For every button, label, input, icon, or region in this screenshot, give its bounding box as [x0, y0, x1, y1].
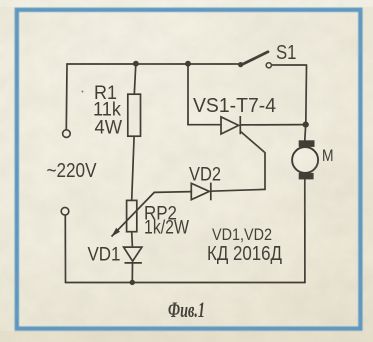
wire thyristor cathode to motor node [240, 124, 305, 126]
wire motor node to motor [304, 125, 307, 141]
node junction top R1 [133, 61, 139, 67]
wire thyristor anode [188, 124, 221, 126]
wire RP2 wiper to VD2 anode [154, 191, 191, 194]
node junction motor [303, 122, 309, 128]
diode VD2 [191, 183, 211, 201]
wire VD2 cathode to gate [211, 189, 265, 191]
wire switch to right side [272, 65, 307, 125]
wire left source top [65, 64, 68, 130]
wire thyristor gate [241, 132, 265, 190]
terminal upper ~220V [63, 130, 71, 138]
wire VD1 to bottom bus [131, 263, 133, 283]
wire junction to R1 [134, 64, 136, 94]
terminal lower ~220V [61, 207, 69, 215]
wire top bus [67, 63, 240, 65]
potentiometer RP2 [111, 192, 154, 237]
wire RP2 to VD1 [131, 232, 134, 247]
thyristor VS1 [221, 116, 240, 134]
wire left source bottom [64, 215, 66, 282]
wire motor to bottom bus [304, 180, 306, 283]
diode VD1 [124, 247, 142, 263]
motor M [292, 140, 318, 179]
resistor R1 [128, 94, 141, 136]
node junction top thyristor [185, 61, 191, 67]
wire top bus to thyristor branch [187, 64, 189, 125]
wire bottom bus [66, 282, 306, 284]
node junction bottom VD1 [130, 280, 135, 285]
wire R1 to RP2 [132, 136, 134, 200]
switch S1 [238, 52, 271, 68]
